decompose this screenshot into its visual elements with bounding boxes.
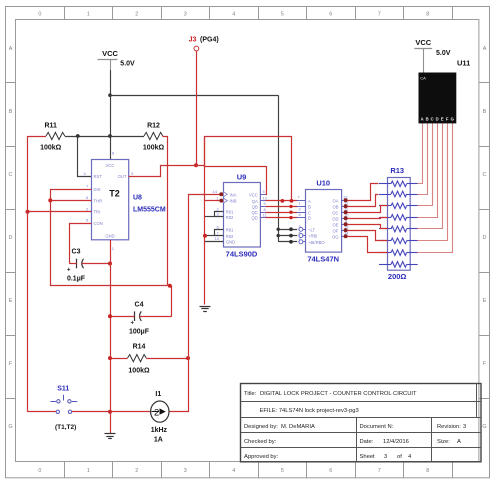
svg-text:T2: T2 bbox=[109, 189, 120, 199]
svg-text:4: 4 bbox=[232, 468, 235, 474]
R13 zigzags and leads bbox=[379, 181, 418, 267]
wire: R91/R92 tie bbox=[205, 230, 224, 236]
svg-text:OD: OD bbox=[332, 216, 338, 221]
svg-text:3: 3 bbox=[384, 454, 387, 460]
wire: U10 ~BI/RBO tap bbox=[278, 241, 297, 243]
wire: R01/R02 tie bbox=[205, 212, 224, 217]
svg-text:OB: OB bbox=[332, 204, 338, 209]
svg-text:OF: OF bbox=[333, 228, 339, 233]
resistor pack R13 bbox=[388, 166, 411, 281]
wire: QC line bbox=[266, 212, 298, 214]
svg-text:QA: QA bbox=[252, 199, 258, 204]
svg-text:R13: R13 bbox=[390, 166, 404, 175]
pin numbers U9 bbox=[213, 189, 268, 241]
junction DIS horizontal on R12 vertical bbox=[168, 284, 172, 288]
display U11 seven segment bbox=[419, 59, 471, 124]
wire: QB line bbox=[266, 206, 298, 208]
frame column numbers bottom bbox=[38, 468, 429, 474]
IC U9 74LS90D box bbox=[223, 183, 260, 248]
svg-text:S11: S11 bbox=[57, 385, 69, 392]
svg-text:6: 6 bbox=[329, 468, 332, 474]
svg-text:14: 14 bbox=[213, 189, 218, 194]
junction THR on DIS vertical bbox=[48, 198, 52, 202]
svg-text:B: B bbox=[308, 205, 311, 210]
svg-text:C: C bbox=[431, 116, 434, 121]
wire: QD line bbox=[266, 217, 298, 219]
svg-text:1: 1 bbox=[87, 11, 90, 17]
svg-text:R02: R02 bbox=[226, 215, 234, 220]
junction R11/RST node bbox=[76, 134, 80, 138]
svg-text:3: 3 bbox=[463, 424, 466, 430]
svg-text:Checked by:: Checked by: bbox=[244, 439, 277, 445]
wire: INB branch bbox=[205, 200, 219, 202]
wire: OA to R13-1 bbox=[348, 184, 379, 201]
svg-text:6: 6 bbox=[329, 11, 332, 17]
current source I1 bbox=[151, 391, 169, 444]
svg-text:Date:: Date: bbox=[360, 439, 374, 445]
svg-text:12/4/2016: 12/4/2016 bbox=[383, 439, 409, 445]
pin stubs U9 right bbox=[261, 195, 266, 218]
wire: OF to R13-6 bbox=[348, 231, 388, 241]
svg-text:8: 8 bbox=[426, 468, 429, 474]
IC U10 74LS47N box bbox=[306, 190, 342, 253]
ground (below U9) bbox=[200, 307, 211, 312]
wire: OG to R13-7 bbox=[348, 237, 388, 253]
svg-text:A: A bbox=[9, 46, 13, 52]
svg-text:M. DeMARIA: M. DeMARIA bbox=[281, 424, 315, 430]
output bubbles U10 right bbox=[344, 198, 348, 238]
svg-text:TRI: TRI bbox=[94, 210, 101, 215]
svg-text:0: 0 bbox=[38, 468, 41, 474]
wire: U9 GND tie bbox=[205, 241, 223, 243]
svg-text:2: 2 bbox=[135, 11, 138, 17]
svg-text:B: B bbox=[426, 116, 429, 121]
svg-text:R12: R12 bbox=[147, 123, 160, 130]
junction R14 left on GND rail bbox=[108, 356, 112, 360]
svg-text:RST: RST bbox=[94, 174, 103, 179]
wire: R12 right down to DIS junction and C4 bbox=[163, 137, 168, 286]
junction VCC bus tap bbox=[108, 93, 112, 97]
junction C4 left on GND rail bbox=[108, 314, 112, 318]
wire: INA rail (U9 INA down to I1) bbox=[170, 195, 220, 412]
wire: clock net upper detour bbox=[205, 137, 292, 201]
frame column ticks bottom band bbox=[65, 462, 453, 478]
svg-text:100kΩ: 100kΩ bbox=[128, 368, 150, 375]
junction S11/GND rail/I1 bbox=[108, 410, 112, 414]
wire: display pin B to R13-2 bbox=[418, 124, 428, 195]
frame column numbers top bbox=[38, 11, 429, 17]
junction dots QB QC QD pin ends bbox=[289, 205, 292, 208]
svg-text:1A: 1A bbox=[154, 437, 163, 444]
ground (below S11) bbox=[105, 434, 116, 439]
frame row ticks left band bbox=[6, 83, 16, 399]
svg-text:0: 0 bbox=[38, 11, 41, 17]
wire: junction to I1 left bbox=[110, 411, 151, 413]
svg-text:I1: I1 bbox=[155, 391, 161, 398]
wire: RST branch bbox=[78, 137, 92, 177]
junction TRI on left rail bbox=[26, 210, 30, 214]
svg-text:B: B bbox=[9, 109, 13, 115]
svg-text:1kHz: 1kHz bbox=[151, 427, 168, 434]
frame row letters left bbox=[8, 46, 12, 430]
svg-text:2: 2 bbox=[135, 468, 138, 474]
junction dots QA line bbox=[281, 199, 285, 203]
svg-text:1: 1 bbox=[87, 468, 90, 474]
switch S11 bbox=[51, 385, 78, 431]
wire: display pin F to R13-6 bbox=[418, 124, 448, 241]
svg-text:100µF: 100µF bbox=[129, 329, 150, 336]
wire: display pin A to R13-1 bbox=[418, 124, 423, 184]
svg-text:J3: J3 bbox=[189, 37, 197, 44]
svg-text:VCC: VCC bbox=[415, 38, 431, 47]
svg-text:+: + bbox=[67, 268, 71, 274]
svg-text:7: 7 bbox=[378, 468, 381, 474]
svg-text:DIGITAL LOCK PROJECT - COUNTER: DIGITAL LOCK PROJECT - COUNTER CONTROL C… bbox=[260, 391, 417, 397]
wire: J3 down to clock net bbox=[196, 51, 198, 165]
svg-text:100kΩ: 100kΩ bbox=[40, 145, 62, 152]
op-amp U8 timer LM555CM box bbox=[92, 160, 129, 240]
svg-text:C4: C4 bbox=[135, 302, 144, 309]
wire: TRI branch to left rail bbox=[28, 211, 92, 213]
svg-text:INA: INA bbox=[230, 192, 237, 197]
svg-text:THR: THR bbox=[94, 198, 103, 203]
svg-text:+: + bbox=[131, 321, 135, 327]
svg-text:C3: C3 bbox=[72, 249, 81, 256]
svg-text:C: C bbox=[483, 172, 487, 178]
svg-text:QD: QD bbox=[252, 216, 258, 221]
wire: INB/reset rail vertical bbox=[204, 136, 206, 304]
wire: C3 left lead bbox=[69, 263, 77, 265]
svg-text:Revision:: Revision: bbox=[437, 424, 461, 430]
clock bubble INA bbox=[219, 192, 223, 196]
wire: down to ground bbox=[110, 412, 112, 434]
frame column ticks top band bbox=[65, 7, 453, 20]
svg-text:GND: GND bbox=[105, 233, 114, 238]
wire: VCC bus vertical to U10 bbox=[278, 95, 280, 242]
svg-text:of: of bbox=[397, 454, 402, 460]
svg-text:GND: GND bbox=[226, 240, 235, 245]
svg-text:D: D bbox=[483, 235, 487, 241]
junction C3/GND rail bbox=[108, 262, 112, 266]
svg-text:3: 3 bbox=[184, 11, 187, 17]
input bubbles U10 lower left bbox=[299, 227, 303, 231]
svg-text:Approved by:: Approved by: bbox=[244, 454, 279, 460]
wire: C4 right vertical bbox=[171, 286, 173, 316]
wire: C3 right lead to GND rail bbox=[82, 263, 111, 265]
wire: VCC to U11 bbox=[423, 49, 425, 74]
svg-text:DIS: DIS bbox=[94, 187, 101, 192]
svg-text:R92: R92 bbox=[226, 234, 234, 239]
svg-text:0.1µF: 0.1µF bbox=[67, 276, 86, 283]
pin stubs U10 left bbox=[297, 201, 306, 242]
power symbol VCC (left) bbox=[98, 49, 136, 68]
wire: OD to R13-4 bbox=[348, 218, 388, 219]
svg-text:QC: QC bbox=[252, 210, 258, 215]
svg-text:100kΩ: 100kΩ bbox=[143, 145, 165, 152]
svg-text:200Ω: 200Ω bbox=[388, 272, 407, 281]
svg-text:CON: CON bbox=[94, 221, 103, 226]
svg-text:R14: R14 bbox=[133, 344, 146, 351]
junction R92 on reset rail bbox=[203, 234, 207, 238]
resistor R12 bbox=[143, 123, 165, 152]
svg-text:A: A bbox=[308, 199, 311, 204]
junction VCC/R12 node bbox=[108, 134, 112, 138]
svg-text:U10: U10 bbox=[316, 179, 330, 188]
svg-text:U9: U9 bbox=[237, 173, 247, 182]
frame row letters right bbox=[482, 46, 486, 430]
svg-text:OUT: OUT bbox=[118, 174, 127, 179]
svg-text:10: 10 bbox=[215, 236, 220, 241]
svg-text:VCC: VCC bbox=[106, 163, 115, 168]
svg-text:E: E bbox=[483, 298, 487, 304]
svg-text:Sheet: Sheet bbox=[360, 454, 376, 460]
power symbol VCC (right) bbox=[414, 38, 450, 57]
capacitor C3 bbox=[67, 249, 86, 283]
pin numbers U10 bbox=[298, 195, 350, 242]
wire: THR branch bbox=[50, 200, 91, 202]
wire: R14 right lead bbox=[146, 358, 188, 360]
svg-text:CA: CA bbox=[420, 76, 426, 81]
svg-text:(T1,T2): (T1,T2) bbox=[55, 424, 76, 431]
svg-text:8: 8 bbox=[426, 11, 429, 17]
frame row ticks right band bbox=[479, 83, 490, 399]
svg-text:A: A bbox=[421, 116, 424, 121]
svg-text:OA: OA bbox=[332, 198, 338, 203]
svg-text:2: 2 bbox=[154, 408, 159, 419]
wire: left rail to R11 bbox=[28, 136, 47, 138]
wire: VCC node to R12 bbox=[110, 136, 144, 138]
svg-text:OG: OG bbox=[332, 234, 339, 239]
svg-text:OE: OE bbox=[332, 222, 338, 227]
svg-text:F: F bbox=[446, 116, 449, 121]
junction dots on VCC bus ties bbox=[277, 227, 293, 243]
wire: OE to R13-5 bbox=[348, 225, 388, 229]
wire: OC to R13-3 bbox=[348, 206, 388, 213]
svg-text:R11: R11 bbox=[44, 123, 57, 130]
wire: display pin G to R13-7 bbox=[418, 124, 453, 253]
wire: U10 ~LT tap bbox=[278, 229, 297, 231]
svg-text:C: C bbox=[9, 172, 13, 178]
svg-text:~RBI: ~RBI bbox=[308, 234, 317, 239]
svg-text:E: E bbox=[441, 116, 444, 121]
svg-text:R01: R01 bbox=[226, 210, 234, 215]
svg-text:R91: R91 bbox=[226, 228, 234, 233]
svg-text:VCC: VCC bbox=[102, 49, 118, 58]
capacitor C4 bbox=[129, 302, 150, 336]
svg-text:74LS47N: 74LS47N bbox=[307, 255, 339, 264]
svg-text:A: A bbox=[483, 46, 487, 52]
wire: display pin E to R13-5 bbox=[418, 124, 443, 229]
wire: S11 to GND rail junction bbox=[72, 411, 110, 413]
svg-text:3: 3 bbox=[184, 468, 187, 474]
svg-text:QB: QB bbox=[252, 204, 258, 209]
svg-text:D: D bbox=[9, 235, 13, 241]
wire: left rail bbox=[27, 136, 29, 412]
wire: OB to R13-2 bbox=[348, 195, 379, 207]
svg-text:G: G bbox=[482, 424, 486, 430]
svg-text:D: D bbox=[308, 216, 311, 221]
junction J3 node bbox=[194, 163, 198, 167]
resistor R14 bbox=[128, 344, 150, 375]
wire: DIS branch down and right bbox=[51, 190, 168, 286]
svg-text:5.0V: 5.0V bbox=[436, 50, 451, 57]
svg-text:C: C bbox=[308, 210, 311, 215]
svg-text:LM555CM: LM555CM bbox=[133, 207, 166, 214]
pin numbers U8 bbox=[84, 151, 135, 252]
wire: left rail to S11 bbox=[28, 411, 56, 413]
svg-text:G: G bbox=[451, 116, 454, 121]
wire: C4 right lead bbox=[139, 316, 172, 318]
pin stubs U10 right bbox=[341, 201, 343, 237]
wire: display pin C to R13-3 bbox=[418, 124, 433, 206]
svg-text:5: 5 bbox=[281, 468, 284, 474]
svg-text:INB: INB bbox=[230, 199, 237, 204]
svg-text:A: A bbox=[457, 439, 461, 445]
svg-text:VCC: VCC bbox=[249, 192, 258, 197]
svg-text:U8: U8 bbox=[133, 195, 142, 202]
svg-text:E: E bbox=[9, 298, 13, 304]
svg-text:5.0V: 5.0V bbox=[120, 61, 135, 68]
wire: clock net jog to U9 VCC branch bbox=[205, 167, 267, 195]
svg-text:G: G bbox=[8, 424, 12, 430]
svg-text:~LT: ~LT bbox=[308, 227, 315, 232]
wire: U10 ~RBI tap bbox=[278, 235, 297, 237]
title block bbox=[241, 384, 482, 462]
wire: QA line U9 to U10 bbox=[266, 200, 298, 202]
svg-text:Size:: Size: bbox=[437, 439, 450, 445]
svg-text:7: 7 bbox=[378, 11, 381, 17]
wire: CON branch down to C3 bbox=[70, 224, 92, 264]
wire: display pin D to R13-4 bbox=[418, 124, 438, 218]
wire: U8 GND rail down bbox=[110, 240, 112, 412]
svg-text:D: D bbox=[436, 116, 439, 121]
svg-text:Designed by:: Designed by: bbox=[244, 424, 278, 430]
svg-text:OC: OC bbox=[332, 210, 338, 215]
wire: U8 OUT to clock net bbox=[129, 166, 205, 177]
svg-text:12: 12 bbox=[263, 196, 268, 201]
wire: R11 to VCC node bbox=[65, 136, 110, 138]
junction R14 right on INA rail bbox=[186, 356, 190, 360]
svg-text:5: 5 bbox=[281, 11, 284, 17]
connector J3 (PG4) bbox=[189, 37, 219, 51]
resistor R11 bbox=[40, 123, 65, 152]
svg-text:74LS90D: 74LS90D bbox=[226, 250, 258, 259]
wire: VCC vertical to U8 pin 8 bbox=[110, 60, 112, 71]
svg-text:EFILE: 74LS74N lock project-re: EFILE: 74LS74N lock project-rev3-pg3 bbox=[260, 408, 359, 414]
wire: R14 left lead bbox=[110, 358, 128, 360]
svg-text:Title:: Title: bbox=[244, 391, 257, 397]
svg-text:Document N:: Document N: bbox=[360, 424, 394, 430]
svg-text:U11: U11 bbox=[457, 59, 470, 68]
svg-text:(PG4): (PG4) bbox=[200, 37, 219, 44]
wire: VCC bus horizontal bbox=[110, 95, 278, 97]
svg-text:4: 4 bbox=[232, 11, 235, 17]
title block text bbox=[244, 391, 466, 460]
wire: C4 left lead bbox=[110, 316, 135, 318]
clock bubble INB bbox=[219, 199, 223, 203]
svg-text:~BI/RBO: ~BI/RBO bbox=[308, 240, 325, 245]
svg-text:B: B bbox=[483, 109, 487, 115]
